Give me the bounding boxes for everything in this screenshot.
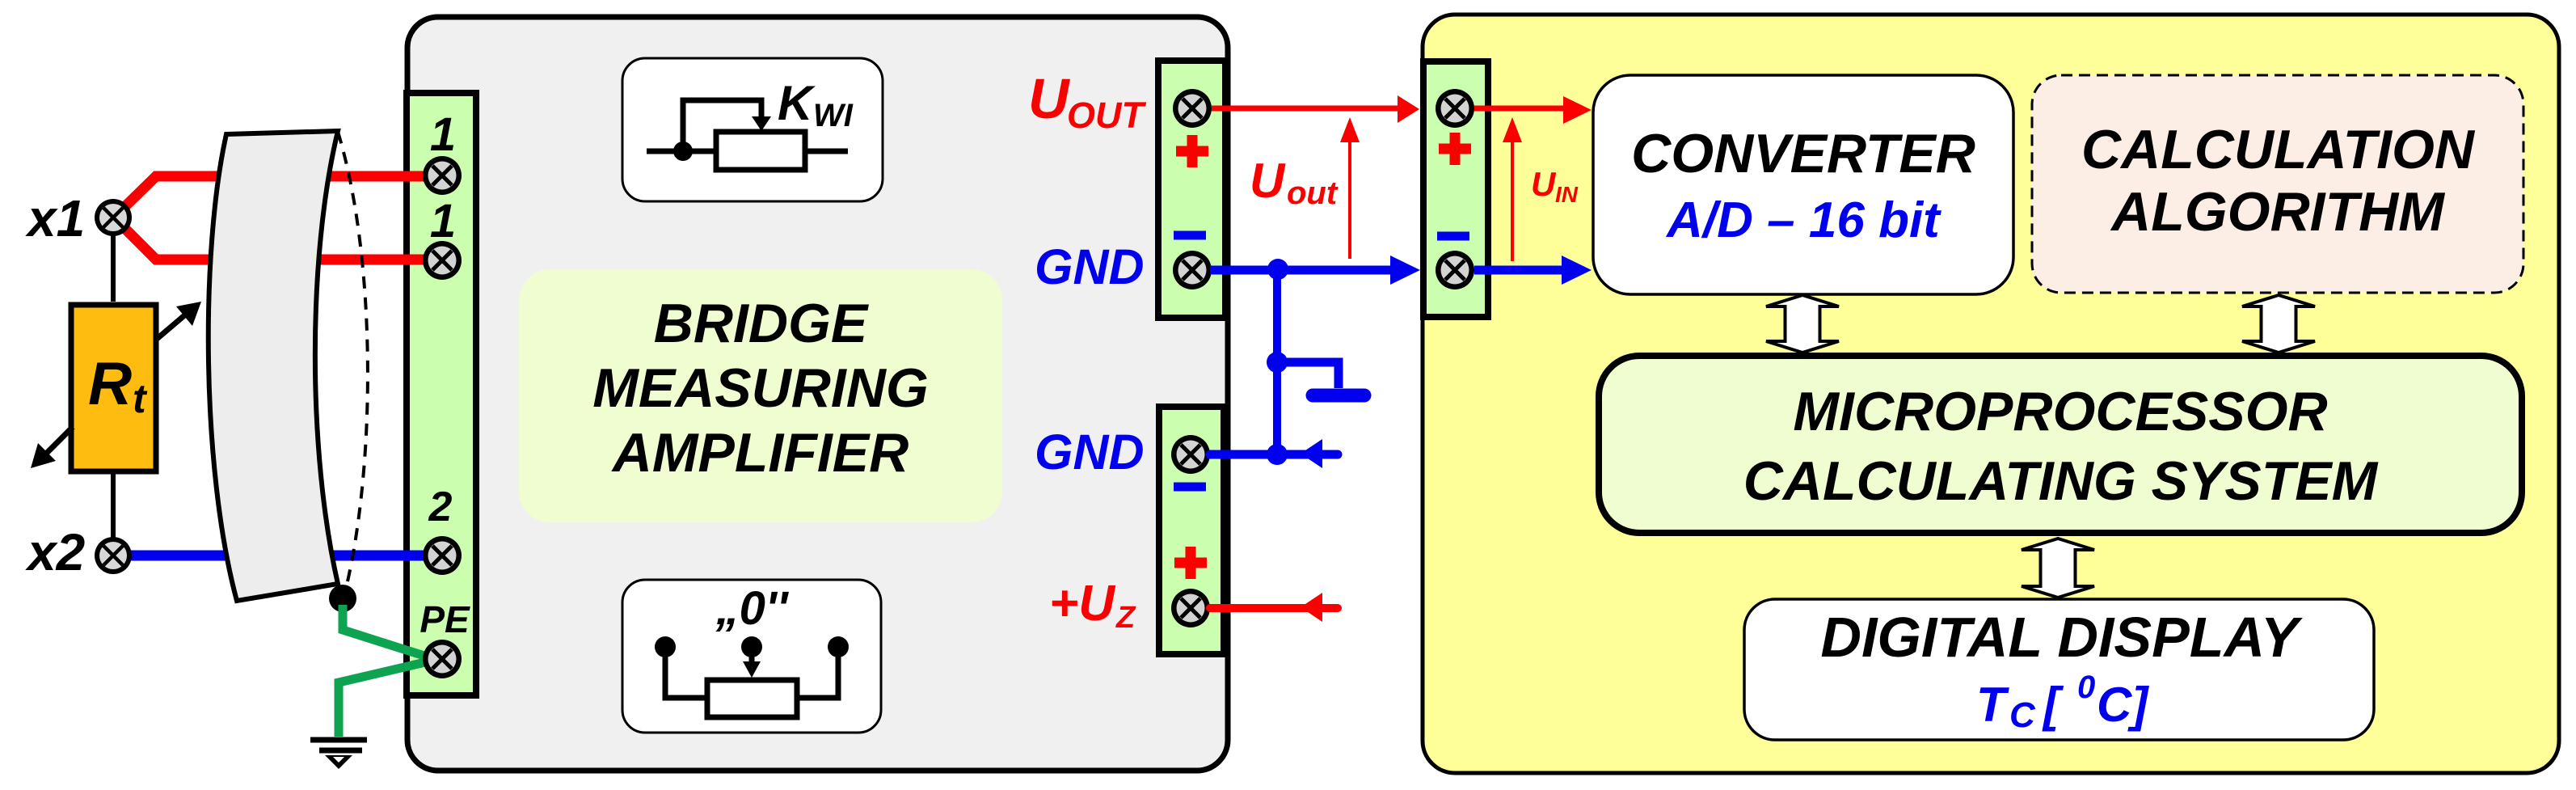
svg-text:CALCULATION: CALCULATION — [2081, 119, 2476, 180]
terminal GND lower — [1171, 435, 1210, 474]
data arrow converter-micro — [1766, 295, 1839, 353]
wire zero wiper — [749, 647, 755, 663]
terminal UOUT — [1173, 89, 1212, 128]
red arrow into UZ — [1301, 593, 1322, 622]
svg-text:GND: GND — [1035, 425, 1145, 479]
node zero right — [828, 636, 849, 657]
wire GND lower stub — [1210, 450, 1338, 459]
wire Rt to x2 — [111, 474, 116, 539]
svg-text:out: out — [1287, 175, 1339, 211]
calculation algorithm box — [2032, 75, 2523, 293]
svg-text:MEASURING: MEASURING — [592, 357, 929, 419]
cable shield band — [209, 131, 338, 601]
wire x1 to Rt — [111, 234, 116, 302]
svg-text:K: K — [778, 76, 816, 130]
node x1 — [95, 199, 132, 236]
wire x1 to terminal 1 (red upper) — [124, 176, 424, 208]
BRIDGE MEASURING AMPLIFIER label box — [519, 269, 1002, 522]
zero wiper arrow — [743, 661, 761, 678]
svg-text:BRIDGE: BRIDGE — [654, 293, 870, 354]
terminal strip out upper — [1158, 61, 1225, 318]
svg-text:0: 0 — [2077, 670, 2095, 705]
terminal 2 — [423, 536, 462, 575]
svg-text:PE: PE — [419, 598, 470, 640]
minus sign — [1174, 231, 1206, 240]
wire x2 to terminal 2 (blue) — [113, 551, 424, 561]
node dot GND — [1267, 259, 1288, 280]
svg-text:GND: GND — [1035, 239, 1145, 294]
terminal strip yellow box — [1423, 61, 1488, 317]
wire x1 to terminal 1b (red lower) — [124, 227, 424, 260]
wiper arrow — [752, 116, 771, 131]
svg-text:R: R — [88, 349, 132, 417]
svg-text:U: U — [1531, 165, 1557, 203]
label +UZ — [1049, 576, 1136, 635]
node zero left — [655, 636, 676, 657]
svg-text:x1: x1 — [25, 189, 85, 247]
svg-text:1: 1 — [430, 108, 456, 161]
microprocessor system box (yellow) — [1423, 15, 2559, 773]
signal ground branch — [1277, 362, 1339, 388]
blue vertical bus — [1273, 270, 1281, 454]
wire zero left — [665, 647, 707, 698]
signal ground bar — [1313, 389, 1364, 403]
svg-text:T: T — [1976, 678, 2009, 732]
terminal Yin+ — [1436, 89, 1474, 128]
svg-text:ALGORITHM: ALGORITHM — [2110, 181, 2445, 243]
wire zero right — [796, 647, 838, 698]
Uout arrow — [1340, 117, 1360, 259]
microprocessor box — [1599, 356, 2522, 533]
plus sign 2 — [1174, 547, 1207, 579]
green PE wire — [343, 605, 427, 657]
Rt arrow lower — [31, 427, 73, 468]
svg-text:x2: x2 — [25, 523, 85, 581]
minus sign 2 — [1174, 483, 1206, 492]
terminal UZ — [1171, 589, 1210, 627]
resistor pot zero — [707, 680, 797, 717]
terminal 1b — [423, 241, 462, 280]
svg-text:MICROPROCESSOR: MICROPROCESSOR — [1793, 381, 2327, 442]
UIN arrow — [1503, 117, 1522, 261]
wire blue into converter — [1474, 266, 1565, 275]
Rt arrow upper — [156, 302, 201, 340]
shield junction dot — [329, 585, 356, 612]
svg-text:U: U — [1028, 67, 1070, 130]
terminal GND upper — [1173, 251, 1212, 289]
plus sign y — [1439, 133, 1471, 165]
wire red into converter — [1474, 106, 1568, 112]
resistor pot KWI — [716, 132, 805, 170]
resistor Rt — [71, 305, 156, 471]
terminal PE — [423, 640, 462, 678]
svg-text:Z: Z — [1115, 601, 1136, 635]
terminal 1 — [423, 156, 462, 195]
node pot tap — [673, 142, 693, 161]
data arrow micro-display — [2022, 539, 2094, 598]
data arrow calc-micro — [2242, 295, 2315, 353]
terminal strip out lower — [1159, 407, 1224, 654]
label Uout — [1250, 154, 1339, 211]
blue arrow into GND — [1301, 439, 1322, 468]
wire GND blue to yellow strip — [1210, 266, 1395, 275]
label UIN — [1531, 165, 1579, 207]
svg-text:DIGITAL DISPLAY: DIGITAL DISPLAY — [1820, 606, 2302, 669]
svg-text:A/D – 16 bit: A/D – 16 bit — [1665, 192, 1941, 248]
svg-text:CONVERTER: CONVERTER — [1631, 123, 1975, 184]
digital display box — [1744, 599, 2374, 740]
gain KWI symbol box — [622, 58, 883, 201]
svg-text:U: U — [1250, 154, 1286, 208]
wire UZ red stub — [1210, 604, 1338, 612]
svg-text:WI: WI — [813, 98, 854, 133]
svg-text:„0'': „0'' — [715, 582, 790, 635]
svg-text:OUT: OUT — [1067, 95, 1147, 136]
svg-text:1: 1 — [430, 195, 456, 247]
svg-text:C: C — [2009, 695, 2036, 735]
cable shield back (dashed) — [338, 132, 368, 598]
minus sign y — [1437, 232, 1469, 241]
node dot mid — [1267, 352, 1288, 373]
terminal Yin- — [1436, 251, 1474, 289]
svg-text:AMPLIFIER: AMPLIFIER — [611, 422, 909, 484]
wire UOUT red to yellow strip — [1212, 106, 1398, 112]
label UOUT — [1028, 67, 1147, 136]
svg-text:IN: IN — [1555, 182, 1579, 207]
terminal strip left — [407, 93, 476, 695]
earth ground — [310, 740, 367, 769]
zero adjust symbol box — [622, 580, 881, 733]
node dot low — [1267, 444, 1288, 465]
converter box — [1593, 75, 2013, 294]
node x2 — [95, 537, 132, 574]
svg-text:CALCULATING SYSTEM: CALCULATING SYSTEM — [1743, 450, 2379, 512]
node zero mid — [741, 636, 762, 657]
plus sign — [1176, 135, 1208, 167]
svg-text:C]: C] — [2097, 678, 2149, 732]
wire pot main — [647, 149, 848, 154]
svg-text:+U: +U — [1049, 576, 1116, 632]
wire wiper feedback — [683, 100, 761, 151]
svg-text:2: 2 — [428, 484, 453, 530]
amplifier box U1 — [407, 17, 1228, 771]
svg-text:t: t — [133, 376, 148, 421]
